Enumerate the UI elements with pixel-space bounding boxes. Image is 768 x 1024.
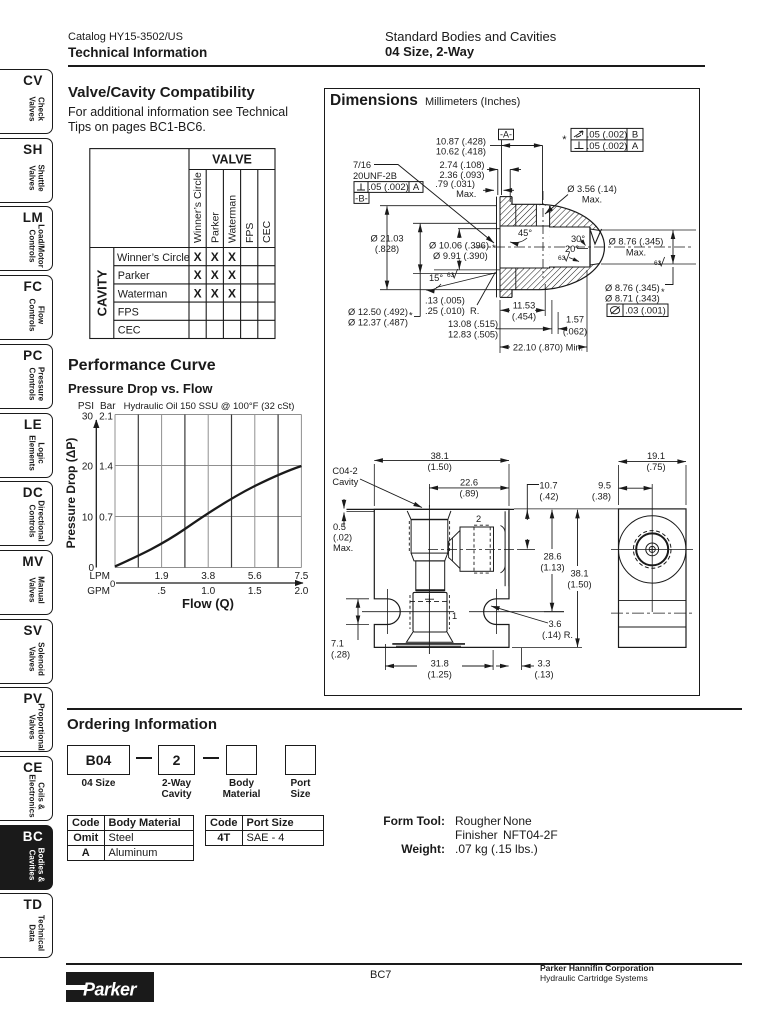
order boxes <box>67 745 130 775</box>
thread boundary lines <box>515 204 517 226</box>
svg-text:Ø 12.50 (.492): Ø 12.50 (.492) <box>348 307 408 317</box>
svg-text:Max.: Max. <box>582 195 602 205</box>
svg-text:Waterman: Waterman <box>118 288 167 300</box>
side view rectangle <box>619 509 687 648</box>
svg-text:22.6: 22.6 <box>460 478 478 488</box>
lower lines <box>619 599 687 601</box>
svg-text:10.62 (.418): 10.62 (.418) <box>436 147 486 157</box>
svg-text:(1.13): (1.13) <box>540 563 564 573</box>
svg-text:2.1: 2.1 <box>99 412 113 423</box>
svg-text:X: X <box>211 286 219 300</box>
svg-text:X: X <box>228 268 236 282</box>
cavity hatch upper half <box>500 197 605 247</box>
svg-text:Ø 8.71 (.343): Ø 8.71 (.343) <box>605 294 660 304</box>
svg-text:7.1: 7.1 <box>331 639 344 649</box>
svg-text:.5: .5 <box>157 586 166 597</box>
curve <box>115 466 301 567</box>
svg-text:7/16: 7/16 <box>353 160 371 170</box>
svg-text:2.0: 2.0 <box>294 586 308 597</box>
svg-text:R.: R. <box>470 306 479 316</box>
svg-text:Waterman: Waterman <box>227 195 239 243</box>
svg-text:10.7: 10.7 <box>539 481 557 491</box>
svg-text:.79 (.031): .79 (.031) <box>435 179 475 189</box>
lower cavity (port 1) <box>413 592 447 632</box>
svg-text:Pressure Drop (ΔP): Pressure Drop (ΔP) <box>64 438 78 549</box>
svg-text:11.53: 11.53 <box>513 301 536 311</box>
step chamfer <box>411 553 448 561</box>
svg-text:10.87 (.428): 10.87 (.428) <box>436 137 486 147</box>
svg-text:.03 (.001): .03 (.001) <box>625 306 666 317</box>
svg-text:19.1: 19.1 <box>647 451 665 461</box>
svg-text:1.4: 1.4 <box>99 462 113 473</box>
svg-text:0: 0 <box>110 579 115 590</box>
svg-text:15°: 15° <box>429 273 443 283</box>
nose face line <box>589 227 591 267</box>
svg-text:38.1: 38.1 <box>570 569 588 579</box>
feature control frame A (mid left) <box>354 182 423 204</box>
svg-text:20: 20 <box>82 462 94 473</box>
svg-text:10: 10 <box>82 513 94 524</box>
top surface line <box>347 508 515 510</box>
svg-text:*: * <box>492 243 496 253</box>
svg-text:X: X <box>228 250 236 264</box>
svg-text:Flow (Q): Flow (Q) <box>182 596 234 611</box>
ordering information <box>67 708 742 710</box>
svg-text:CEC: CEC <box>118 325 141 337</box>
svg-text:1: 1 <box>452 611 457 621</box>
cartridge axis <box>428 505 430 654</box>
svg-text:Max.: Max. <box>626 248 646 258</box>
dim dia 8.76 max (right) <box>601 229 696 231</box>
svg-text:*: * <box>409 311 413 321</box>
svg-text:(.062): (.062) <box>563 327 587 337</box>
svg-text:(.14) R.: (.14) R. <box>542 630 573 640</box>
neck <box>416 561 445 591</box>
bottom flare + base <box>406 632 453 642</box>
svg-text:*: * <box>661 287 665 297</box>
svg-text:.05 (.002): .05 (.002) <box>587 141 628 152</box>
svg-text:3.3: 3.3 <box>538 659 551 669</box>
svg-text:*: * <box>562 134 567 146</box>
form tool <box>305 814 445 828</box>
svg-text:0.7: 0.7 <box>99 513 113 524</box>
svg-text:GPM: GPM <box>87 586 110 597</box>
grid <box>115 415 301 568</box>
left face lines <box>496 197 498 298</box>
svg-text:Ø 12.37 (.487): Ø 12.37 (.487) <box>348 318 408 328</box>
svg-text:12.83 (.505): 12.83 (.505) <box>448 330 498 340</box>
svg-text:A: A <box>413 182 420 193</box>
big bore circle <box>619 516 686 583</box>
left column <box>68 84 255 101</box>
svg-text:Ø 9.91 (.390): Ø 9.91 (.390) <box>433 251 488 261</box>
svg-text:Winner’s Circle: Winner’s Circle <box>192 172 204 243</box>
crosshairs <box>651 502 653 612</box>
svg-text:20UNF-2B: 20UNF-2B <box>353 171 397 181</box>
svg-text:-B-: -B- <box>355 193 368 204</box>
svg-text:(1.50): (1.50) <box>567 580 591 590</box>
footer <box>66 963 742 965</box>
svg-text:.25 (.010): .25 (.010) <box>425 306 465 316</box>
svg-text:3.8: 3.8 <box>201 571 215 582</box>
notch centerlines <box>362 611 454 613</box>
svg-text:(.28): (.28) <box>331 650 350 660</box>
svg-text:63: 63 <box>558 255 566 262</box>
feature control frame B (top right) <box>571 128 643 151</box>
bore outline <box>500 226 590 268</box>
svg-text:31.8: 31.8 <box>431 659 449 669</box>
body block outline with notches <box>374 509 509 647</box>
svg-text:Ø 8.76 (.345): Ø 8.76 (.345) <box>605 283 660 293</box>
svg-text:CAVITY: CAVITY <box>95 269 110 316</box>
svg-text:(1.50): (1.50) <box>428 462 452 472</box>
svg-text:X: X <box>194 268 202 282</box>
svg-text:Ø 10.06 (.396): Ø 10.06 (.396) <box>429 241 489 251</box>
dimensions box <box>324 88 700 696</box>
svg-text:A: A <box>632 141 639 152</box>
svg-text:.05 (.002): .05 (.002) <box>368 182 409 193</box>
svg-text:2.74 (.108): 2.74 (.108) <box>440 160 485 170</box>
svg-text:(.89): (.89) <box>459 489 478 499</box>
svg-text:Ø 3.56 (.14): Ø 3.56 (.14) <box>567 184 617 194</box>
centerline horizontal <box>474 246 694 248</box>
svg-text:(.75): (.75) <box>646 462 665 472</box>
check mark nose <box>591 229 602 244</box>
svg-text:LPM: LPM <box>89 571 110 582</box>
svg-text:FPS: FPS <box>118 307 139 319</box>
svg-text:Ø 8.76 (.345): Ø 8.76 (.345) <box>609 237 664 247</box>
svg-text:20°: 20° <box>565 244 579 254</box>
svg-text:30: 30 <box>82 412 94 423</box>
svg-text:1.5: 1.5 <box>248 586 262 597</box>
centerline vertical (vent hole) <box>542 191 544 278</box>
svg-text:45°: 45° <box>518 228 532 238</box>
outer profile <box>512 197 605 298</box>
svg-text:3.6: 3.6 <box>549 619 562 629</box>
nose hole walls <box>590 229 600 231</box>
svg-text:Parker: Parker <box>209 212 221 243</box>
svg-text:X: X <box>194 250 202 264</box>
thread ring dashed <box>633 531 671 569</box>
svg-text:9.5: 9.5 <box>598 481 611 491</box>
svg-text:-A-: -A- <box>500 130 512 140</box>
svg-text:1.57: 1.57 <box>566 315 584 325</box>
svg-text:Cavity: Cavity <box>332 477 358 487</box>
cartridge upper bore <box>411 520 448 554</box>
svg-text:7.5: 7.5 <box>294 571 308 582</box>
svg-text:FPS: FPS <box>244 223 256 243</box>
performance curve <box>68 357 216 375</box>
svg-text:2: 2 <box>476 514 481 524</box>
port 2 horizontal <box>449 538 453 561</box>
svg-text:(.454): (.454) <box>512 312 536 322</box>
svg-text:13.08 (.515): 13.08 (.515) <box>448 319 498 329</box>
svg-text:22.10 (.870) Min.: 22.10 (.870) Min. <box>513 343 583 353</box>
svg-text:28.6: 28.6 <box>543 552 561 562</box>
svg-text:B: B <box>632 130 638 141</box>
svg-text:Bar: Bar <box>100 401 116 412</box>
svg-text:Parker: Parker <box>83 980 138 1000</box>
svg-text:(.42): (.42) <box>539 492 558 502</box>
axes <box>95 420 97 568</box>
dim dia 21.03 <box>386 206 388 289</box>
svg-text:PSI: PSI <box>78 401 94 412</box>
compatibility table <box>89 148 276 345</box>
svg-text:Max.: Max. <box>456 189 476 199</box>
svg-text:X: X <box>211 250 219 264</box>
svg-text:Max.: Max. <box>333 543 353 553</box>
svg-text:38.1: 38.1 <box>431 451 449 461</box>
svg-text:X: X <box>228 286 236 300</box>
bore interior white <box>500 226 550 268</box>
flatness frame .03 <box>607 304 668 317</box>
svg-text:VALVE: VALVE <box>212 153 252 167</box>
svg-text:1.9: 1.9 <box>155 571 169 582</box>
svg-text:(.13): (.13) <box>534 670 553 680</box>
header <box>68 31 183 43</box>
svg-text:X: X <box>194 286 202 300</box>
svg-text:(.828): (.828) <box>375 244 399 254</box>
svg-text:(1.25): (1.25) <box>428 670 452 680</box>
svg-text:C04-2: C04-2 <box>332 466 357 476</box>
svg-text:Ø 21.03: Ø 21.03 <box>370 234 403 244</box>
svg-text:X: X <box>211 268 219 282</box>
svg-text:.05 (.002): .05 (.002) <box>587 130 628 141</box>
svg-text:CEC: CEC <box>261 220 273 243</box>
svg-text:(.38): (.38) <box>592 492 611 502</box>
svg-text:Parker: Parker <box>118 270 150 282</box>
svg-text:5.6: 5.6 <box>248 571 262 582</box>
svg-text:Winner’s Circle: Winner’s Circle <box>117 252 190 264</box>
datum A box <box>499 129 514 140</box>
cartridge cavity: top chamfer <box>407 511 451 520</box>
vent hole channel (white) <box>537 205 549 226</box>
cavity hatch lower half <box>500 247 605 297</box>
svg-text:(.02): (.02) <box>333 533 352 543</box>
svg-text:Hydraulic Oil 150 SSU @ 100°F: Hydraulic Oil 150 SSU @ 100°F (32 cSt) <box>124 401 295 412</box>
Parker logo <box>66 972 154 1007</box>
svg-text:.13 (.005): .13 (.005) <box>425 296 465 306</box>
